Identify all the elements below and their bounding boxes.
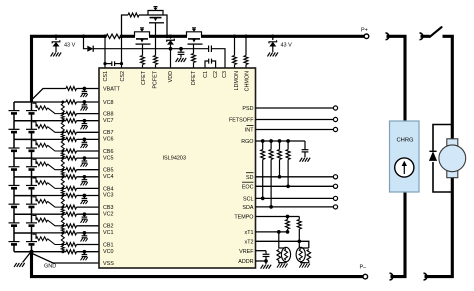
resistor R-CHMON <box>244 56 248 65</box>
resistor R-VC6-CB6 vertical <box>61 138 64 141</box>
wire thermistor T2 top <box>299 241 309 248</box>
op-amp U1 ISL94203 IC body <box>99 68 256 268</box>
zener Z3 between rail and VDD <box>170 36 172 38</box>
thermistor T1 <box>281 247 290 261</box>
wire VC5 from tap <box>32 157 67 159</box>
cell 1a <box>13 233 15 241</box>
svg-text:EOC: EOC <box>242 184 254 190</box>
wire main rail segment CS2 to CFET <box>121 35 136 38</box>
ground below Z2 <box>267 52 270 56</box>
wire supply line to C3 <box>93 48 208 50</box>
cell 5b <box>31 158 33 166</box>
svg-text:CB4: CB4 <box>103 186 114 192</box>
zener Z2 43V <box>272 36 274 40</box>
wire pack+ thick bus from battery top to main rail <box>32 36 107 102</box>
cell 1b <box>31 233 33 241</box>
wire xT2 <box>256 241 309 248</box>
overline for EOC <box>242 181 254 183</box>
node LDMON tap on rail <box>233 34 237 38</box>
resistor R-VC3 <box>66 194 77 198</box>
capacitor C-VC4 <box>83 177 85 180</box>
capacitor C-VC1 <box>83 233 85 236</box>
wire CB6 to pin <box>77 150 100 152</box>
wire VC8 from tap <box>32 101 67 103</box>
resistor R-CB6 <box>66 149 77 153</box>
wire CB7 to row <box>48 127 67 133</box>
overline for SD <box>246 172 254 174</box>
svg-text:VC5: VC5 <box>103 155 114 161</box>
resistor R-CB3-VC2 vertical <box>61 206 64 209</box>
connector load minus <box>424 273 427 280</box>
resistor R-VC5-CB5 vertical <box>61 157 64 160</box>
svg-text:PCFET: PCFET <box>153 70 159 88</box>
ground below ADDR <box>265 261 267 264</box>
node battery tap 7 <box>14 120 32 122</box>
resistor R-CB1-VC0 vertical <box>61 243 64 246</box>
wire CB7 to pin <box>77 131 100 133</box>
wire CB7 from cell tap <box>33 122 37 127</box>
resistor R-DFET <box>192 54 196 63</box>
wire thermistor T1 top <box>279 232 286 248</box>
cell 2a <box>13 214 15 222</box>
node VC4 filter <box>83 175 87 179</box>
wire INT to connector <box>256 129 334 131</box>
svg-text:CB7: CB7 <box>103 130 114 136</box>
wire C1 pin up <box>205 61 209 68</box>
wire CB6 from cell tap <box>33 141 37 146</box>
wire VC5 to pin <box>77 157 100 159</box>
wire CFET gate lead <box>142 44 144 55</box>
svg-text:C2: C2 <box>213 71 219 78</box>
wire CB4 from cell tap <box>33 178 37 183</box>
cell 7a <box>13 121 15 129</box>
svg-text:43 V: 43 V <box>64 42 76 48</box>
resistor R-VC8-CB8 vertical <box>61 101 64 104</box>
node battery tap 1 <box>14 232 32 234</box>
svg-text:CS1: CS1 <box>103 71 109 82</box>
capacitor C-VC8 <box>83 102 85 105</box>
cell 7b <box>31 121 33 129</box>
svg-text:VC8: VC8 <box>103 100 114 106</box>
wire CB2 to pin <box>77 225 100 227</box>
wire CB5 to row <box>48 164 67 170</box>
terminal EOC <box>333 184 337 188</box>
resistor R-CB8-VC7 vertical <box>61 112 64 115</box>
node VC6 filter <box>83 138 87 142</box>
node zener Z1 tap <box>54 34 58 38</box>
node VC7 filter <box>83 119 87 123</box>
capacitor C-VC3 <box>83 196 85 199</box>
node CS2 filter <box>120 62 123 65</box>
cell 4b <box>31 177 33 185</box>
ground below C-VDD <box>176 58 179 62</box>
wire thermistor T2 bottom <box>301 261 309 263</box>
transistor Q2 PCFET <box>148 14 164 16</box>
svg-text:SD: SD <box>246 175 254 181</box>
resistor R-pullup-SDA <box>270 141 272 150</box>
svg-text:ISL94203: ISL94203 <box>163 155 187 161</box>
charger CHRG box <box>390 121 420 192</box>
wire VC7 from tap <box>32 120 67 122</box>
resistor R-VC3-CB3 vertical <box>61 194 64 197</box>
terminal SCL <box>333 196 337 200</box>
wire CS2 to pin <box>121 36 123 68</box>
node ADDR junction <box>264 259 268 263</box>
wire CB8 to pin <box>77 113 100 115</box>
svg-text:C1: C1 <box>203 71 209 78</box>
capacitor C-C3 series in supply line <box>208 46 210 53</box>
ground below T2 <box>299 264 302 268</box>
node battery tap 2 <box>14 213 32 215</box>
thermistor T2 <box>296 247 305 261</box>
cell 4a <box>13 177 15 185</box>
wire VC1 to pin <box>77 232 100 234</box>
svg-text:P–: P– <box>360 264 368 270</box>
ground below Z1 <box>51 52 54 56</box>
resistor R-CB1 <box>66 243 77 247</box>
cell 8a <box>13 102 15 110</box>
wire CS1 to pin <box>104 36 106 68</box>
wire pullup to SCL <box>262 160 264 199</box>
wire pack- thick bus from battery bottom to P- rail <box>32 252 364 277</box>
node RGO pullup EOC <box>286 139 290 143</box>
wire RGO <box>256 140 306 142</box>
cell 3a <box>13 196 15 204</box>
node zener Z2 tap <box>271 34 275 38</box>
wire PCFET drain down to mid node <box>164 15 168 36</box>
wire VSS from pack- node <box>30 253 99 264</box>
node xT2 R2 junction <box>297 239 301 243</box>
capacitor C-C1C2 <box>208 59 210 64</box>
wire CB1 to row <box>48 239 67 245</box>
node CS1 on rail <box>103 34 107 38</box>
node battery tap 5 <box>14 157 32 159</box>
node PCFET drain on rail <box>165 34 169 38</box>
node pack+ top tap <box>14 101 32 103</box>
resistor R-CB2 balance <box>36 218 48 222</box>
resistor R-CB6 balance <box>36 143 48 147</box>
wire pullup to SDA <box>270 160 272 207</box>
resistor R-T2 parallel <box>307 250 311 261</box>
wire EOC to connector <box>256 185 334 187</box>
node VC8 filter <box>83 100 87 104</box>
node RGO pullup SCL <box>261 139 265 143</box>
terminal P- <box>363 274 368 279</box>
capacitor C-VC7 <box>83 121 85 124</box>
capacitor C-VBATT <box>83 89 85 92</box>
wire VC2 to pin <box>77 213 100 215</box>
resistor R-VC7 <box>66 119 77 123</box>
terminal SD <box>333 175 337 179</box>
wire SDA to connector <box>256 206 334 208</box>
wire charger plus <box>387 36 406 121</box>
wire VC7 to pin <box>77 120 100 122</box>
wire VC0 to pin <box>77 251 100 253</box>
svg-text:CHRG: CHRG <box>397 138 415 144</box>
wire VC4 from tap <box>32 176 67 178</box>
wire ADDR <box>256 260 267 262</box>
wire xT1 <box>256 231 288 233</box>
resistor R-PCFET-gate-series <box>128 13 139 17</box>
node battery tap 3 <box>14 195 32 197</box>
wire R-PCFET to pin <box>155 65 157 69</box>
terminal INT <box>333 127 337 131</box>
resistor R-CB5 balance <box>36 162 48 166</box>
capacitor C-CS across CS1-CS2 <box>105 63 112 65</box>
wire PCFET branch up from CS2 node <box>122 15 129 36</box>
cell 2b <box>31 214 33 222</box>
wire VC0 from tap <box>32 251 67 253</box>
wire VC8 to pin <box>77 101 100 103</box>
svg-text:CB3: CB3 <box>103 205 114 211</box>
wire VC4 to pin <box>77 176 100 178</box>
resistor R-VC0 <box>66 250 77 254</box>
wire R-CFET to pin <box>142 65 144 69</box>
svg-text:VC3: VC3 <box>103 193 114 199</box>
resistor R-CB3 balance <box>36 199 48 203</box>
node battery tap 6 <box>14 138 32 140</box>
svg-text:VC4: VC4 <box>103 174 114 180</box>
resistor R-VC1 <box>66 231 77 235</box>
cell 5a <box>13 158 15 166</box>
wire CB1 from cell tap <box>33 234 37 239</box>
wire VBATT to pin <box>77 88 100 90</box>
svg-text:VSS: VSS <box>103 261 114 267</box>
resistor R-T1 parallel <box>277 250 281 261</box>
svg-text:P+: P+ <box>361 27 368 33</box>
node TEMPO R1 <box>286 215 290 219</box>
svg-text:CS2: CS2 <box>120 71 126 82</box>
node CS1 filter <box>103 62 106 65</box>
resistor R-LDMON <box>233 56 237 65</box>
resistor R-VBATT <box>66 87 77 91</box>
wire CB8 to row <box>48 108 67 114</box>
resistor R-pullup-SCL <box>262 141 264 150</box>
terminal P+ <box>364 34 369 39</box>
wire FETSOFF to connector <box>256 119 334 121</box>
wire R-DFET to pin <box>193 63 195 69</box>
svg-text:INT: INT <box>245 128 254 134</box>
node RGO pullup SD <box>278 139 282 143</box>
wire to switch <box>421 35 430 38</box>
wire CB5 from cell tap <box>33 159 37 164</box>
wire TEMPO <box>256 216 300 218</box>
terminal SDA <box>333 205 337 209</box>
capacitor C-VREF <box>265 251 267 254</box>
wire to PCFET <box>139 14 148 16</box>
svg-text:VC1: VC1 <box>103 230 114 236</box>
resistor R-CB2 <box>66 224 77 228</box>
svg-text:CHMON: CHMON <box>245 71 251 91</box>
node RGO pullup SDA <box>269 139 273 143</box>
wire CB1 to pin <box>77 244 100 246</box>
cell 3b <box>31 196 33 204</box>
svg-text:VC2: VC2 <box>103 211 114 217</box>
capacitor C-VDD to ground <box>180 49 182 52</box>
node CS2 on rail <box>120 34 124 38</box>
wire VC3 from tap <box>32 195 67 197</box>
resistor R-CB3 <box>66 205 77 209</box>
resistor R-PCFET <box>154 56 158 65</box>
pin labels right side <box>229 106 254 265</box>
resistor R-VC4-CB4 vertical <box>61 175 64 178</box>
node VC0 chain <box>61 250 64 253</box>
diode D1 supply <box>87 46 93 52</box>
connector load plus <box>420 33 423 40</box>
resistor R-CB8 <box>66 112 77 116</box>
node VBATT filter <box>83 87 87 91</box>
resistor R-VC7-CB7 vertical <box>61 119 64 122</box>
resistor R-VC2 <box>66 212 77 216</box>
wire flyback diode loop <box>433 125 452 151</box>
resistor R-CB5 <box>66 168 77 172</box>
resistor R-VC4 <box>66 175 77 179</box>
resistor R-CB4 <box>66 186 77 190</box>
wire VC2 from tap <box>32 213 67 215</box>
svg-text:CFET: CFET <box>141 70 147 85</box>
capacitor C-RGO <box>304 141 306 149</box>
wire LDMON from rail <box>234 36 236 55</box>
wire CB2 from cell tap <box>33 216 37 221</box>
resistor R-TEMPO-1 <box>287 217 289 220</box>
svg-text:VC6: VC6 <box>103 137 114 143</box>
resistor R-VC1-CB1 vertical <box>61 231 64 234</box>
svg-text:CB1: CB1 <box>103 242 114 248</box>
node VC5 filter <box>83 156 87 160</box>
node supply diode tap on rail <box>82 34 86 38</box>
pin labels top side <box>103 70 251 91</box>
diode D2 flyback <box>429 150 436 152</box>
wire VREF <box>256 250 267 252</box>
svg-text:CB5: CB5 <box>103 168 114 174</box>
wire thermistor T1 bottom <box>279 261 286 263</box>
connector charger plus <box>386 33 389 40</box>
transistor Q1 CFET <box>135 32 150 37</box>
resistor R-pullup-EOC <box>287 141 289 150</box>
wire DFET gate lead <box>193 44 195 53</box>
wire CB8 from cell tap <box>33 103 37 108</box>
wire SD to connector <box>256 176 334 178</box>
capacitor C-VC6 <box>83 139 85 142</box>
svg-text:SDA: SDA <box>242 205 253 211</box>
wire main rail segment CFET to DFET <box>149 35 187 38</box>
capacitor C-VC2 <box>83 214 85 217</box>
wire VDD to pin <box>170 49 172 68</box>
resistor R-VC6 <box>66 137 77 141</box>
zener Z1 43V <box>55 36 57 40</box>
capacitor C-VC5 <box>83 158 85 161</box>
node CHMON tap on rail <box>244 34 248 38</box>
node pack- bottom tap <box>14 251 32 253</box>
switch S1 blade <box>430 27 442 37</box>
ground below T1 <box>277 264 280 268</box>
resistor R-VC2-CB2 vertical <box>61 213 64 216</box>
wire VC1 from tap <box>32 232 67 234</box>
wire charger minus <box>391 192 406 277</box>
connector charger minus <box>390 273 393 280</box>
wire switch to motor <box>443 36 453 139</box>
motor M1 <box>447 139 458 146</box>
svg-text:CB2: CB2 <box>103 224 114 230</box>
svg-text:CB6: CB6 <box>103 149 114 155</box>
wire main rail segment DFET to P+ terminal <box>201 35 364 38</box>
overline for INT <box>247 124 254 126</box>
resistor R-CB2-VC1 vertical <box>61 224 64 227</box>
capacitor C-VC0 <box>83 252 85 255</box>
svg-text:VBATT: VBATT <box>103 86 121 92</box>
wire VC6 from tap <box>32 138 67 140</box>
node xT1 junction <box>277 230 281 234</box>
wire to C2 pin <box>212 61 216 68</box>
svg-text:VC0: VC0 <box>103 249 114 255</box>
wire VBATT from pack+ node <box>32 89 67 101</box>
svg-text:TEMPO: TEMPO <box>234 215 253 221</box>
wire CB3 to row <box>48 201 67 207</box>
wire CB3 to pin <box>77 206 100 208</box>
svg-text:C3: C3 <box>222 71 228 78</box>
wire VC3 to pin <box>77 195 100 197</box>
ground below C-RGO <box>300 158 303 162</box>
svg-text:CB8: CB8 <box>103 112 114 118</box>
wire supply line to C3 pin <box>211 49 225 68</box>
pin labels left side <box>103 86 121 267</box>
svg-text:RGO: RGO <box>241 139 253 145</box>
wire pullup to EOC <box>287 160 289 187</box>
wire CB6 to row <box>48 145 67 151</box>
wire down from rail to diode <box>84 36 88 48</box>
resistor R-CB8 balance <box>36 106 48 110</box>
wire load minus <box>425 178 453 277</box>
node VC2 filter <box>83 212 87 216</box>
svg-text:VC7: VC7 <box>103 118 114 124</box>
node VC1 filter <box>83 231 87 235</box>
svg-text:ADDR: ADDR <box>238 259 253 265</box>
resistor R-pullup-SD <box>279 141 281 150</box>
wire VC6 to pin <box>77 138 100 140</box>
resistor R-CB1 balance <box>36 237 48 241</box>
terminal PSD <box>333 106 337 110</box>
svg-text:VREF: VREF <box>239 249 254 255</box>
svg-text:PSD: PSD <box>242 106 253 112</box>
svg-text:LDMON: LDMON <box>234 71 240 91</box>
node xT1 R1 junction <box>286 230 290 234</box>
wire PCFET gate lead <box>155 23 157 56</box>
wire pullup to SD <box>279 160 281 177</box>
node VC0 filter <box>83 250 87 254</box>
node VC3 filter <box>83 194 87 198</box>
resistor R-CB6-VC5 vertical <box>61 150 64 153</box>
node mid-rail zener tap <box>169 34 173 38</box>
cell 6a <box>13 139 15 147</box>
resistor R-CB4-VC3 vertical <box>61 187 64 190</box>
current source symbol inside charger <box>395 158 414 177</box>
wire CB4 to row <box>48 183 67 189</box>
svg-text:VDD: VDD <box>168 71 174 82</box>
resistor R-CB4 balance <box>36 181 48 185</box>
cell 6b <box>31 139 33 147</box>
svg-text:GND: GND <box>44 263 56 269</box>
resistor R-CB7 balance <box>36 125 48 129</box>
wire PSD to connector <box>256 107 334 109</box>
svg-text:xT2: xT2 <box>245 239 254 245</box>
resistor R-VC8 <box>66 100 77 104</box>
terminal FETSOFF <box>333 117 337 121</box>
resistor R-VC5 <box>66 156 77 160</box>
wire SCL to connector <box>256 197 334 199</box>
node VDD bypass junction <box>179 47 183 51</box>
cell 8b <box>31 102 33 110</box>
resistor R-CB7 <box>66 130 77 134</box>
